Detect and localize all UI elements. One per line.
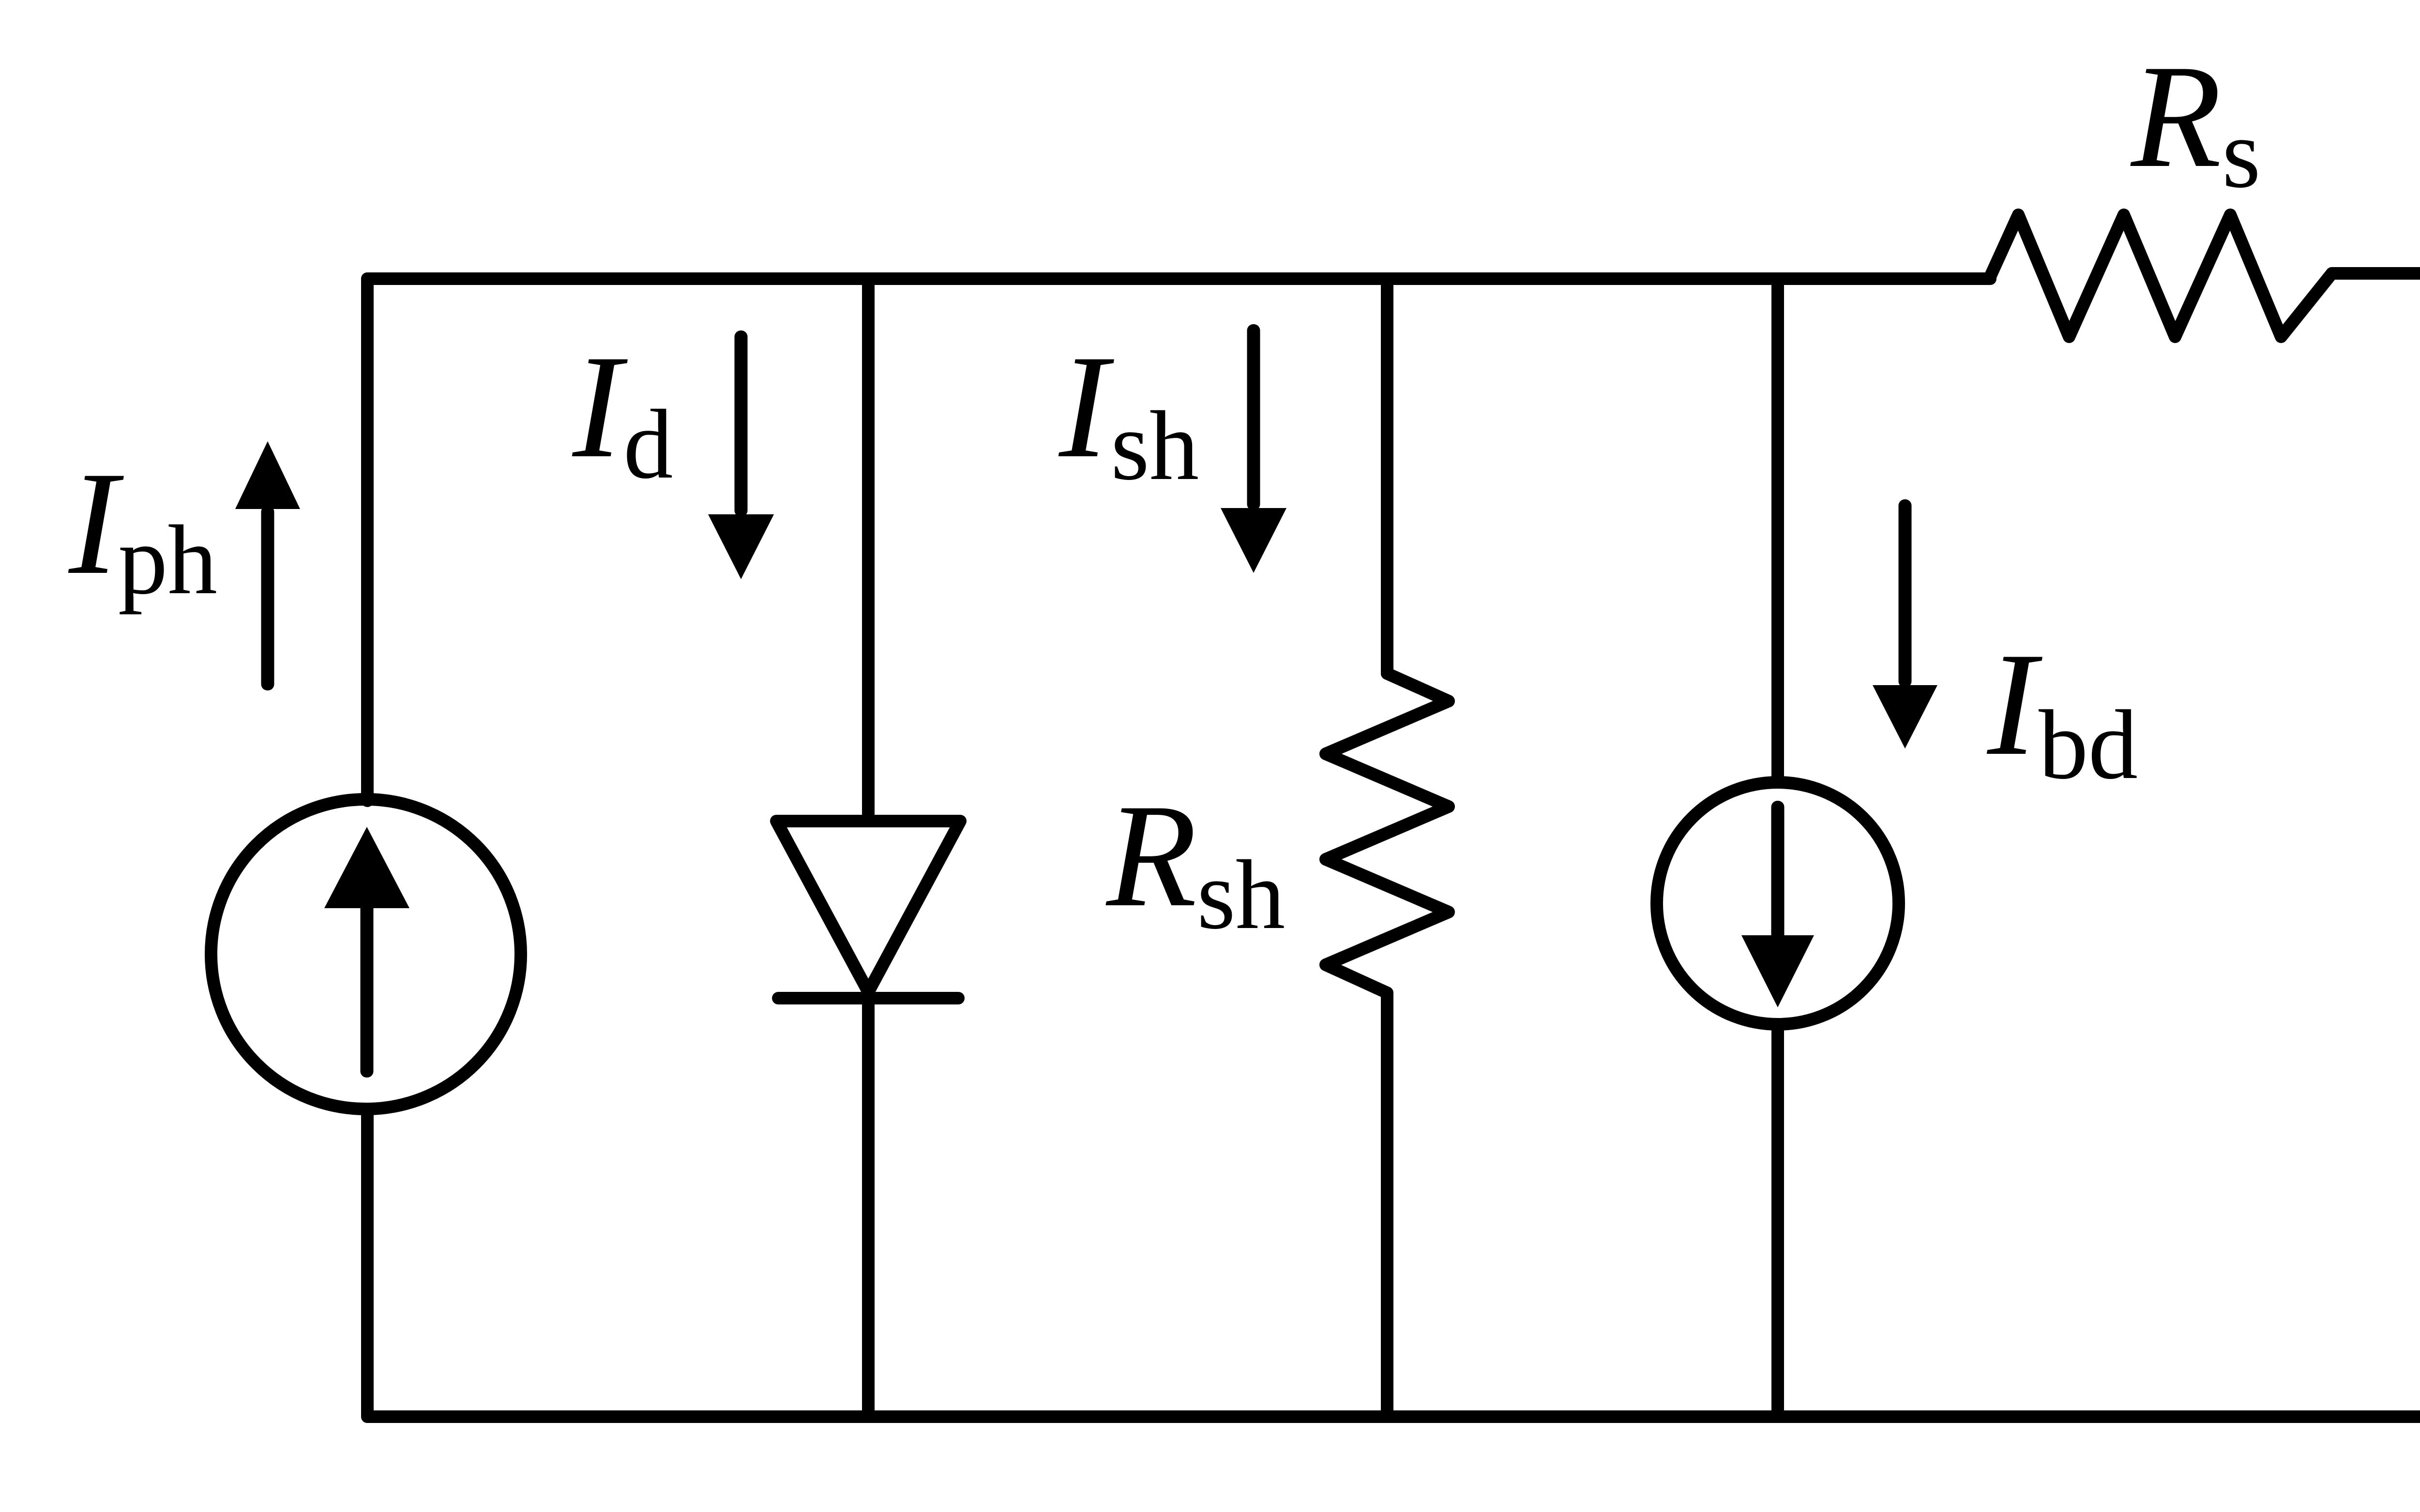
svg-text:s: s [2222, 99, 2261, 209]
current source I_bd circle [1657, 782, 1899, 1024]
resistor R_sh zigzag [1326, 674, 1449, 993]
wire diode branch upper [862, 279, 875, 821]
wire bottom rail [367, 1410, 2420, 1423]
svg-text:ph: ph [118, 505, 217, 615]
wire top rail right [2332, 267, 2420, 280]
svg-text:bd: bd [2039, 690, 2138, 800]
arrow I_sh annotation [1247, 324, 1260, 510]
resistor R_s zigzag [1989, 215, 2332, 337]
arrow I_d annotation [735, 330, 748, 517]
svg-text:I: I [570, 325, 628, 489]
current source I_ph circle [211, 799, 521, 1109]
svg-text:sh: sh [1111, 391, 1199, 501]
wire left vertical lower [361, 1109, 374, 1417]
svg-text:d: d [623, 389, 673, 499]
svg-text:R: R [1104, 774, 1197, 938]
svg-text:I: I [66, 441, 124, 605]
wire left vertical upper [361, 279, 374, 801]
wire Ibd branch lower [1771, 1028, 1784, 1417]
wire Rsh branch lower [1381, 993, 1393, 1417]
wire Rsh branch upper [1381, 279, 1393, 674]
wire top rail left [367, 272, 1990, 285]
arrow I_bd annotation [1899, 499, 1912, 688]
diode cathode bar [778, 992, 958, 1004]
svg-text:R: R [2129, 34, 2222, 198]
diode D triangle [776, 821, 960, 992]
I_ph source arrow [361, 902, 374, 1078]
I_bd source arrow [1771, 801, 1785, 941]
svg-text:I: I [1057, 325, 1115, 489]
svg-text:I: I [1985, 622, 2043, 786]
wire diode branch lower [862, 998, 875, 1417]
wire Ibd branch upper [1771, 279, 1784, 780]
svg-text:sh: sh [1197, 840, 1285, 950]
arrow I_ph annotation [261, 506, 274, 690]
